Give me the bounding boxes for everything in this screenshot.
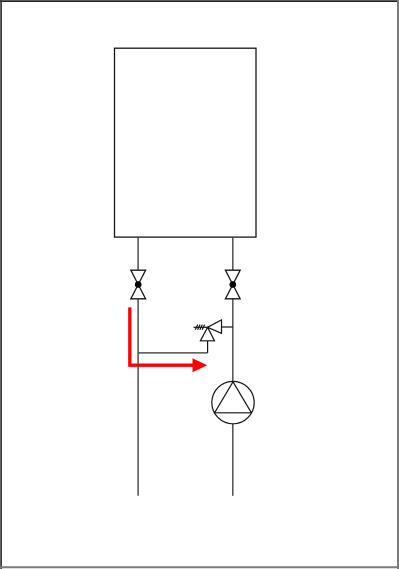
wire: horizontal branch pipe: [138, 352, 208, 354]
flow direction arrow (red): [130, 307, 208, 372]
frame bottom border: [0, 566, 399, 568]
wire: right return pipe lower segment: [232, 424, 234, 496]
frame left border: [0, 0, 2, 569]
boiler B1: [115, 48, 257, 237]
wire: right return pipe middle segment: [232, 299, 234, 382]
wire: left supply pipe lower segment: [137, 299, 139, 496]
wire: left supply pipe upper segment: [137, 238, 139, 271]
wire: right return pipe upper segment: [232, 238, 234, 271]
safety valve SV1: [194, 320, 233, 353]
pump P1: [212, 381, 254, 423]
shutoff valve V2: [225, 270, 240, 299]
shutoff valve V1: [131, 270, 146, 299]
frame top border: [0, 0, 399, 2]
frame right border: [397, 0, 399, 569]
